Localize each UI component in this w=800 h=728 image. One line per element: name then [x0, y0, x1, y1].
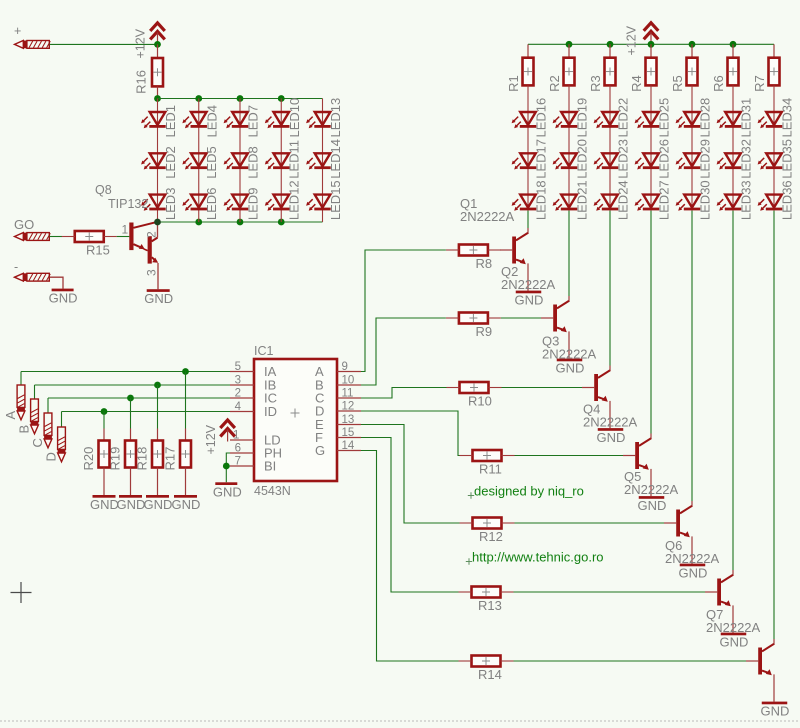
LED LED15: [306, 180, 343, 220]
svg-text:+12V: +12V: [134, 28, 148, 58]
wire LED column 3 to Q3 collector: [609, 211, 611, 366]
svg-text:R12: R12: [479, 529, 503, 544]
junction net/R20: [101, 408, 108, 415]
svg-text:GND: GND: [761, 704, 790, 719]
text http://www.tehnic.go.ro: [466, 550, 604, 565]
svg-text:GND: GND: [144, 497, 173, 512]
label +12V (IC): [204, 424, 218, 454]
svg-text:R13: R13: [478, 598, 502, 613]
supply +12V symbol (IC LD): [220, 420, 235, 442]
junction cathode bus col2: [195, 219, 202, 226]
svg-text:ID: ID: [264, 404, 277, 419]
svg-text:LED17: LED17: [534, 139, 549, 179]
junction +12V bus x692: [689, 41, 696, 48]
resistor R5: [670, 58, 698, 92]
svg-text:+12V: +12V: [204, 424, 218, 454]
LED LED33: [717, 180, 754, 220]
ground Q8 emitter: [144, 289, 173, 306]
svg-text:R17: R17: [163, 447, 178, 471]
connector pin GO input: [15, 233, 51, 241]
junction net/R19: [127, 395, 134, 402]
resistor R12: [460, 518, 515, 545]
transistor Q2: [541, 296, 569, 359]
svg-text:LED12: LED12: [287, 180, 302, 220]
lead R16 bottom: [157, 86, 159, 98]
svg-text:LED21: LED21: [575, 180, 590, 220]
junction cathode bus col3: [237, 219, 244, 226]
svg-text:LED33: LED33: [739, 180, 754, 220]
svg-text:2N2222A: 2N2222A: [583, 415, 638, 430]
lead R2 bottom / LED column: [568, 85, 570, 210]
svg-text:LED26: LED26: [657, 139, 672, 179]
LED LED34: [758, 98, 795, 138]
LED LED6: [182, 188, 219, 221]
lead R18 top: [157, 429, 159, 441]
transistor Q7: [746, 639, 774, 702]
svg-text:R7: R7: [752, 75, 767, 92]
svg-text:2N2222A: 2N2222A: [501, 277, 556, 292]
LED LED9: [224, 188, 261, 221]
svg-text:2N2222A: 2N2222A: [706, 620, 761, 635]
label +12V (top left): [134, 28, 148, 58]
transistor Q3: [582, 366, 610, 429]
lead R1 bottom / LED column: [527, 85, 529, 210]
connector pin + supply: [15, 41, 51, 49]
svg-text:R16: R16: [134, 70, 149, 94]
LED LED18: [512, 180, 549, 220]
wire R14 to base: [514, 660, 747, 662]
svg-text:LED16: LED16: [534, 98, 549, 138]
ground Q3 emitter: [597, 428, 626, 445]
label TIP132: [108, 197, 148, 211]
svg-text:LED4: LED4: [204, 105, 219, 138]
lead LED column L2: [198, 99, 200, 223]
svg-text:R5: R5: [670, 75, 685, 92]
svg-text:2N2222A: 2N2222A: [460, 209, 515, 224]
ground Q7 emitter: [761, 702, 790, 719]
svg-text:13: 13: [342, 414, 355, 426]
svg-text:GND: GND: [49, 291, 78, 306]
wire net D (pin to R): [361, 411, 460, 456]
svg-text:-: -: [14, 260, 18, 274]
junction anode bus col3: [237, 95, 244, 102]
svg-text:R8: R8: [476, 256, 493, 271]
resistor R20: [81, 440, 110, 470]
svg-text:IC1: IC1: [254, 344, 274, 358]
wire R10 to base: [502, 387, 583, 389]
wire R17 to net: [185, 372, 187, 429]
svg-text:LED24: LED24: [616, 180, 631, 220]
transistor Q8 (TIP132 darlington): [122, 222, 159, 289]
svg-text:10: 10: [342, 375, 355, 387]
svg-text:14: 14: [342, 440, 355, 452]
wire R9 to base: [501, 317, 541, 319]
svg-text:LED10: LED10: [287, 98, 302, 138]
wire net E (pin to R): [361, 425, 460, 524]
svg-text:LED29: LED29: [698, 139, 713, 179]
connector pin C input: [30, 413, 52, 448]
LED LED24: [594, 180, 631, 220]
svg-text:4543N: 4543N: [254, 484, 291, 498]
LED LED29: [676, 139, 713, 179]
svg-text:3: 3: [144, 269, 158, 276]
junction +12V bus x733: [730, 41, 737, 48]
wire LED column 6 to Q6 collector: [732, 211, 734, 570]
wire left matrix cathode bus: [158, 221, 323, 223]
wire net ID horizontal: [62, 411, 231, 413]
resistor R2: [547, 58, 575, 92]
LED LED32: [717, 139, 754, 179]
svg-text:GND: GND: [117, 497, 146, 512]
svg-text:R3: R3: [588, 75, 603, 92]
svg-text:LED6: LED6: [204, 188, 219, 221]
svg-text:GND: GND: [556, 361, 585, 376]
connector pin B input: [17, 399, 39, 434]
svg-text:12: 12: [342, 401, 355, 413]
resistor R6: [711, 58, 739, 92]
svg-text:R4: R4: [629, 75, 644, 92]
wire net C (pin to R): [361, 388, 447, 399]
lead R7 top: [773, 44, 775, 57]
svg-text:LED13: LED13: [328, 98, 343, 138]
svg-text:GND: GND: [638, 498, 667, 513]
lead LED column L4: [280, 99, 282, 223]
lead LED column L3: [239, 99, 241, 223]
resistor R4: [629, 58, 657, 92]
svg-text:2N2222A: 2N2222A: [665, 551, 720, 566]
wire net IA horizontal: [21, 371, 230, 373]
lead R5 top: [691, 44, 693, 57]
LED LED22: [594, 98, 631, 138]
svg-text:R14: R14: [478, 667, 502, 682]
junction +12V bus x610: [607, 41, 614, 48]
svg-text:GO: GO: [14, 217, 34, 232]
LED LED11: [265, 140, 302, 179]
svg-text:GND: GND: [144, 291, 173, 306]
svg-text:1: 1: [122, 223, 129, 237]
label Q4 / 2N2222A: [583, 402, 638, 430]
svg-text:2: 2: [144, 231, 158, 238]
resistor R9: [446, 313, 501, 340]
LED LED30: [676, 180, 713, 220]
sheet origin cross: [11, 582, 32, 603]
LED LED1: [141, 105, 178, 138]
svg-text:+: +: [14, 24, 21, 38]
LED LED31: [717, 98, 754, 138]
wire LED column 5 to Q5 collector: [691, 211, 693, 501]
lead R2 top: [568, 44, 570, 57]
wire net F (pin to R): [361, 438, 459, 593]
lead R1 top: [527, 44, 529, 57]
resistor R14: [459, 656, 514, 683]
svg-text:GND: GND: [679, 566, 708, 581]
lead R17 top: [185, 429, 187, 441]
LED LED25: [635, 98, 672, 138]
wire GO to R15: [50, 236, 63, 238]
LED LED4: [182, 105, 219, 138]
LED LED7: [224, 105, 261, 138]
resistor R3: [588, 58, 616, 92]
wire net G (pin to R): [361, 451, 459, 662]
LED LED3: [141, 188, 178, 221]
junction anode bus col4: [278, 95, 285, 102]
svg-text:LED27: LED27: [657, 180, 672, 220]
svg-text:LED32: LED32: [739, 139, 754, 179]
wire BI to GND: [226, 466, 230, 482]
resistor R1: [506, 58, 534, 92]
junction +12V bus x651: [648, 41, 655, 48]
label + (supply input): [14, 24, 21, 38]
wire net IA: [20, 372, 22, 386]
wire R13 to base: [514, 591, 706, 593]
label - (supply return): [14, 260, 18, 274]
junction net/R17: [182, 368, 189, 375]
junction +12V / R16: [154, 41, 161, 48]
svg-text:R6: R6: [711, 75, 726, 92]
resistor R19: [108, 440, 137, 470]
svg-text:5: 5: [235, 361, 241, 373]
svg-text:LED7: LED7: [246, 105, 261, 138]
ground R20 bottom: [90, 495, 119, 512]
svg-text:Q8: Q8: [95, 183, 112, 197]
ground R19 bottom: [117, 495, 146, 512]
lead R20 bottom: [103, 468, 105, 496]
lead R18 bottom: [157, 468, 159, 496]
LED LED13: [306, 98, 343, 138]
wire right matrix +12V bus: [528, 43, 774, 45]
wire LED column 1 to Q1 collector: [527, 211, 529, 228]
svg-text:15: 15: [342, 427, 355, 439]
LED LED27: [635, 180, 672, 220]
wire R19 to net: [130, 398, 132, 429]
svg-text:LED23: LED23: [616, 139, 631, 179]
lead R6 top: [732, 44, 734, 57]
svg-text:R10: R10: [468, 394, 492, 409]
label Q1 / 2N2222A: [460, 196, 515, 224]
wire net ID: [61, 412, 63, 428]
wire net B (pin to R): [361, 318, 446, 385]
svg-text:R20: R20: [81, 447, 96, 471]
wire - supply to GND: [50, 277, 64, 288]
svg-text:GND: GND: [213, 484, 242, 499]
LED LED5: [182, 146, 219, 179]
lead R17 bottom: [185, 468, 187, 496]
lead R20 top: [103, 429, 105, 441]
label Q8: [95, 183, 112, 197]
wire net IB horizontal: [35, 384, 231, 386]
ground - supply: [49, 289, 78, 306]
lead R3 top: [609, 44, 611, 57]
text designed by niq_ro: [468, 484, 584, 499]
ground R18 bottom: [144, 495, 173, 512]
svg-text:GND: GND: [515, 293, 544, 308]
LED LED19: [553, 98, 590, 138]
svg-text:LED15: LED15: [328, 180, 343, 220]
svg-text:R11: R11: [479, 462, 502, 477]
lead R7 bottom / LED column: [773, 85, 775, 210]
LED LED21: [553, 180, 590, 220]
ground Q6 emitter: [720, 633, 749, 650]
svg-text:G: G: [315, 443, 325, 458]
svg-text:LED5: LED5: [204, 146, 219, 179]
junction PH/BI: [223, 463, 230, 470]
svg-text:3: 3: [235, 375, 241, 387]
svg-text:LED34: LED34: [780, 98, 795, 138]
svg-text:LED8: LED8: [246, 146, 261, 179]
label Q5 / 2N2222A: [624, 469, 679, 497]
svg-text:R9: R9: [476, 324, 493, 339]
resistor R15: [62, 231, 117, 258]
resistor R10: [447, 382, 502, 409]
ground Q1 emitter: [515, 291, 544, 308]
wire net A (pin to R): [361, 250, 446, 372]
svg-text:2N2222A: 2N2222A: [624, 482, 679, 497]
supply +12V symbol (top left): [150, 23, 165, 45]
LED LED12: [265, 180, 302, 220]
svg-text:R2: R2: [547, 75, 562, 92]
svg-text:2: 2: [235, 388, 241, 400]
resistor R17: [163, 440, 192, 470]
svg-text:LED14: LED14: [328, 139, 343, 179]
transistor Q4: [623, 434, 651, 497]
transistor Q6: [705, 570, 733, 633]
lead R4 bottom / LED column: [650, 85, 652, 210]
LED LED8: [224, 146, 261, 179]
LED LED28: [676, 98, 713, 138]
wire net IC: [47, 398, 49, 413]
connector pin A input: [3, 385, 25, 420]
svg-text:LED1: LED1: [163, 105, 178, 138]
svg-text:GND: GND: [90, 497, 119, 512]
wire net IC horizontal: [48, 397, 230, 399]
svg-text:+12V: +12V: [625, 25, 639, 55]
svg-text:LED31: LED31: [739, 98, 754, 138]
LED LED23: [594, 139, 631, 179]
ground IC PH/BI: [213, 482, 242, 499]
svg-text:4: 4: [235, 401, 242, 413]
svg-text:2N2222A: 2N2222A: [542, 347, 597, 362]
wire R12 to base: [515, 522, 665, 524]
label Q7 / 2N2222A: [706, 607, 761, 635]
connector pin D input: [44, 427, 66, 462]
svg-text:D: D: [44, 452, 59, 461]
svg-text:LED35: LED35: [780, 139, 795, 179]
svg-text:LED19: LED19: [575, 98, 590, 138]
svg-text:B: B: [17, 425, 32, 434]
transistor Q1: [500, 228, 528, 291]
junction R16 / LED bus: [154, 95, 161, 102]
resistor R18: [135, 440, 164, 470]
lead LED column L1: [157, 99, 159, 223]
wire net IB: [34, 385, 36, 399]
ground R17 bottom: [172, 495, 201, 512]
LED LED16: [512, 98, 549, 138]
svg-text:C: C: [30, 438, 45, 447]
svg-text:LED20: LED20: [575, 139, 590, 179]
label +12V (right bus): [625, 25, 639, 55]
LED LED14: [306, 139, 343, 179]
connector pin - supply: [15, 273, 51, 281]
label Q6 / 2N2222A: [665, 538, 720, 566]
resistor R16: [134, 58, 164, 94]
lead R6 bottom / LED column: [732, 85, 734, 210]
IC U1 (IC1 4543N): [230, 344, 361, 498]
wire left matrix anode bus: [158, 98, 323, 100]
svg-text:LED3: LED3: [163, 188, 178, 221]
LED LED17: [512, 139, 549, 179]
lead R4 top: [650, 44, 652, 57]
svg-text:6: 6: [235, 443, 241, 455]
svg-text:LED11: LED11: [287, 140, 302, 179]
lead R19 top: [130, 429, 132, 441]
svg-text:TIP132: TIP132: [108, 197, 148, 211]
svg-text:R15: R15: [86, 243, 110, 258]
ground Q5 emitter: [679, 564, 708, 581]
LED LED20: [553, 139, 590, 179]
ground Q2 emitter: [556, 359, 585, 376]
svg-text:GND: GND: [597, 430, 626, 445]
svg-text:LED18: LED18: [534, 180, 549, 220]
wire R18 to net: [157, 385, 159, 429]
junction +12V bus x569: [566, 41, 573, 48]
junction cathode bus col4: [278, 219, 285, 226]
wire PH to GND: [226, 453, 230, 466]
LED LED10: [265, 98, 302, 138]
svg-text:GND: GND: [172, 497, 201, 512]
resistor R7: [752, 58, 780, 92]
label Q3 / 2N2222A: [542, 334, 597, 362]
wire R20 to net: [103, 412, 105, 429]
ground Q4 emitter: [638, 496, 667, 513]
svg-text:http://www.tehnic.go.ro: http://www.tehnic.go.ro: [472, 550, 604, 565]
transistor Q5: [664, 501, 692, 564]
junction Q8 collector / cathode bus: [154, 219, 161, 226]
lead R19 bottom: [130, 468, 132, 496]
svg-text:designed by niq_ro: designed by niq_ro: [474, 484, 584, 499]
wire LED column 4 to Q4 collector: [650, 211, 652, 434]
svg-text:LED36: LED36: [780, 180, 795, 220]
svg-text:7: 7: [235, 456, 241, 468]
svg-text:LED22: LED22: [616, 98, 631, 138]
resistor R13: [459, 587, 514, 614]
junction anode bus col2: [195, 95, 202, 102]
svg-text:A: A: [3, 411, 18, 420]
svg-text:11: 11: [342, 388, 354, 400]
wire R15 to Q8 base: [117, 236, 130, 238]
LED LED2: [141, 146, 178, 179]
svg-text:9: 9: [342, 361, 348, 373]
resistor R8: [446, 245, 501, 272]
svg-text:LED25: LED25: [657, 98, 672, 138]
wire R11 to base: [515, 455, 624, 457]
lead R16 top: [157, 44, 159, 58]
label Q2 / 2N2222A: [501, 264, 556, 292]
svg-text:LED30: LED30: [698, 180, 713, 220]
resistor R11: [460, 450, 515, 477]
lead R3 bottom / LED column: [609, 85, 611, 210]
junction net/R18: [154, 382, 161, 389]
lead R5 bottom / LED column: [691, 85, 693, 210]
wire + supply to +12V node: [50, 43, 158, 45]
lead LED column L5: [322, 99, 324, 223]
LED LED35: [758, 139, 795, 179]
svg-text:BI: BI: [264, 459, 276, 474]
svg-text:LED2: LED2: [163, 146, 178, 179]
wire LED column 2 to Q2 collector: [568, 211, 570, 296]
LED LED26: [635, 139, 672, 179]
wire LED column 7 to Q7 collector: [773, 211, 775, 639]
svg-text:GND: GND: [720, 635, 749, 650]
